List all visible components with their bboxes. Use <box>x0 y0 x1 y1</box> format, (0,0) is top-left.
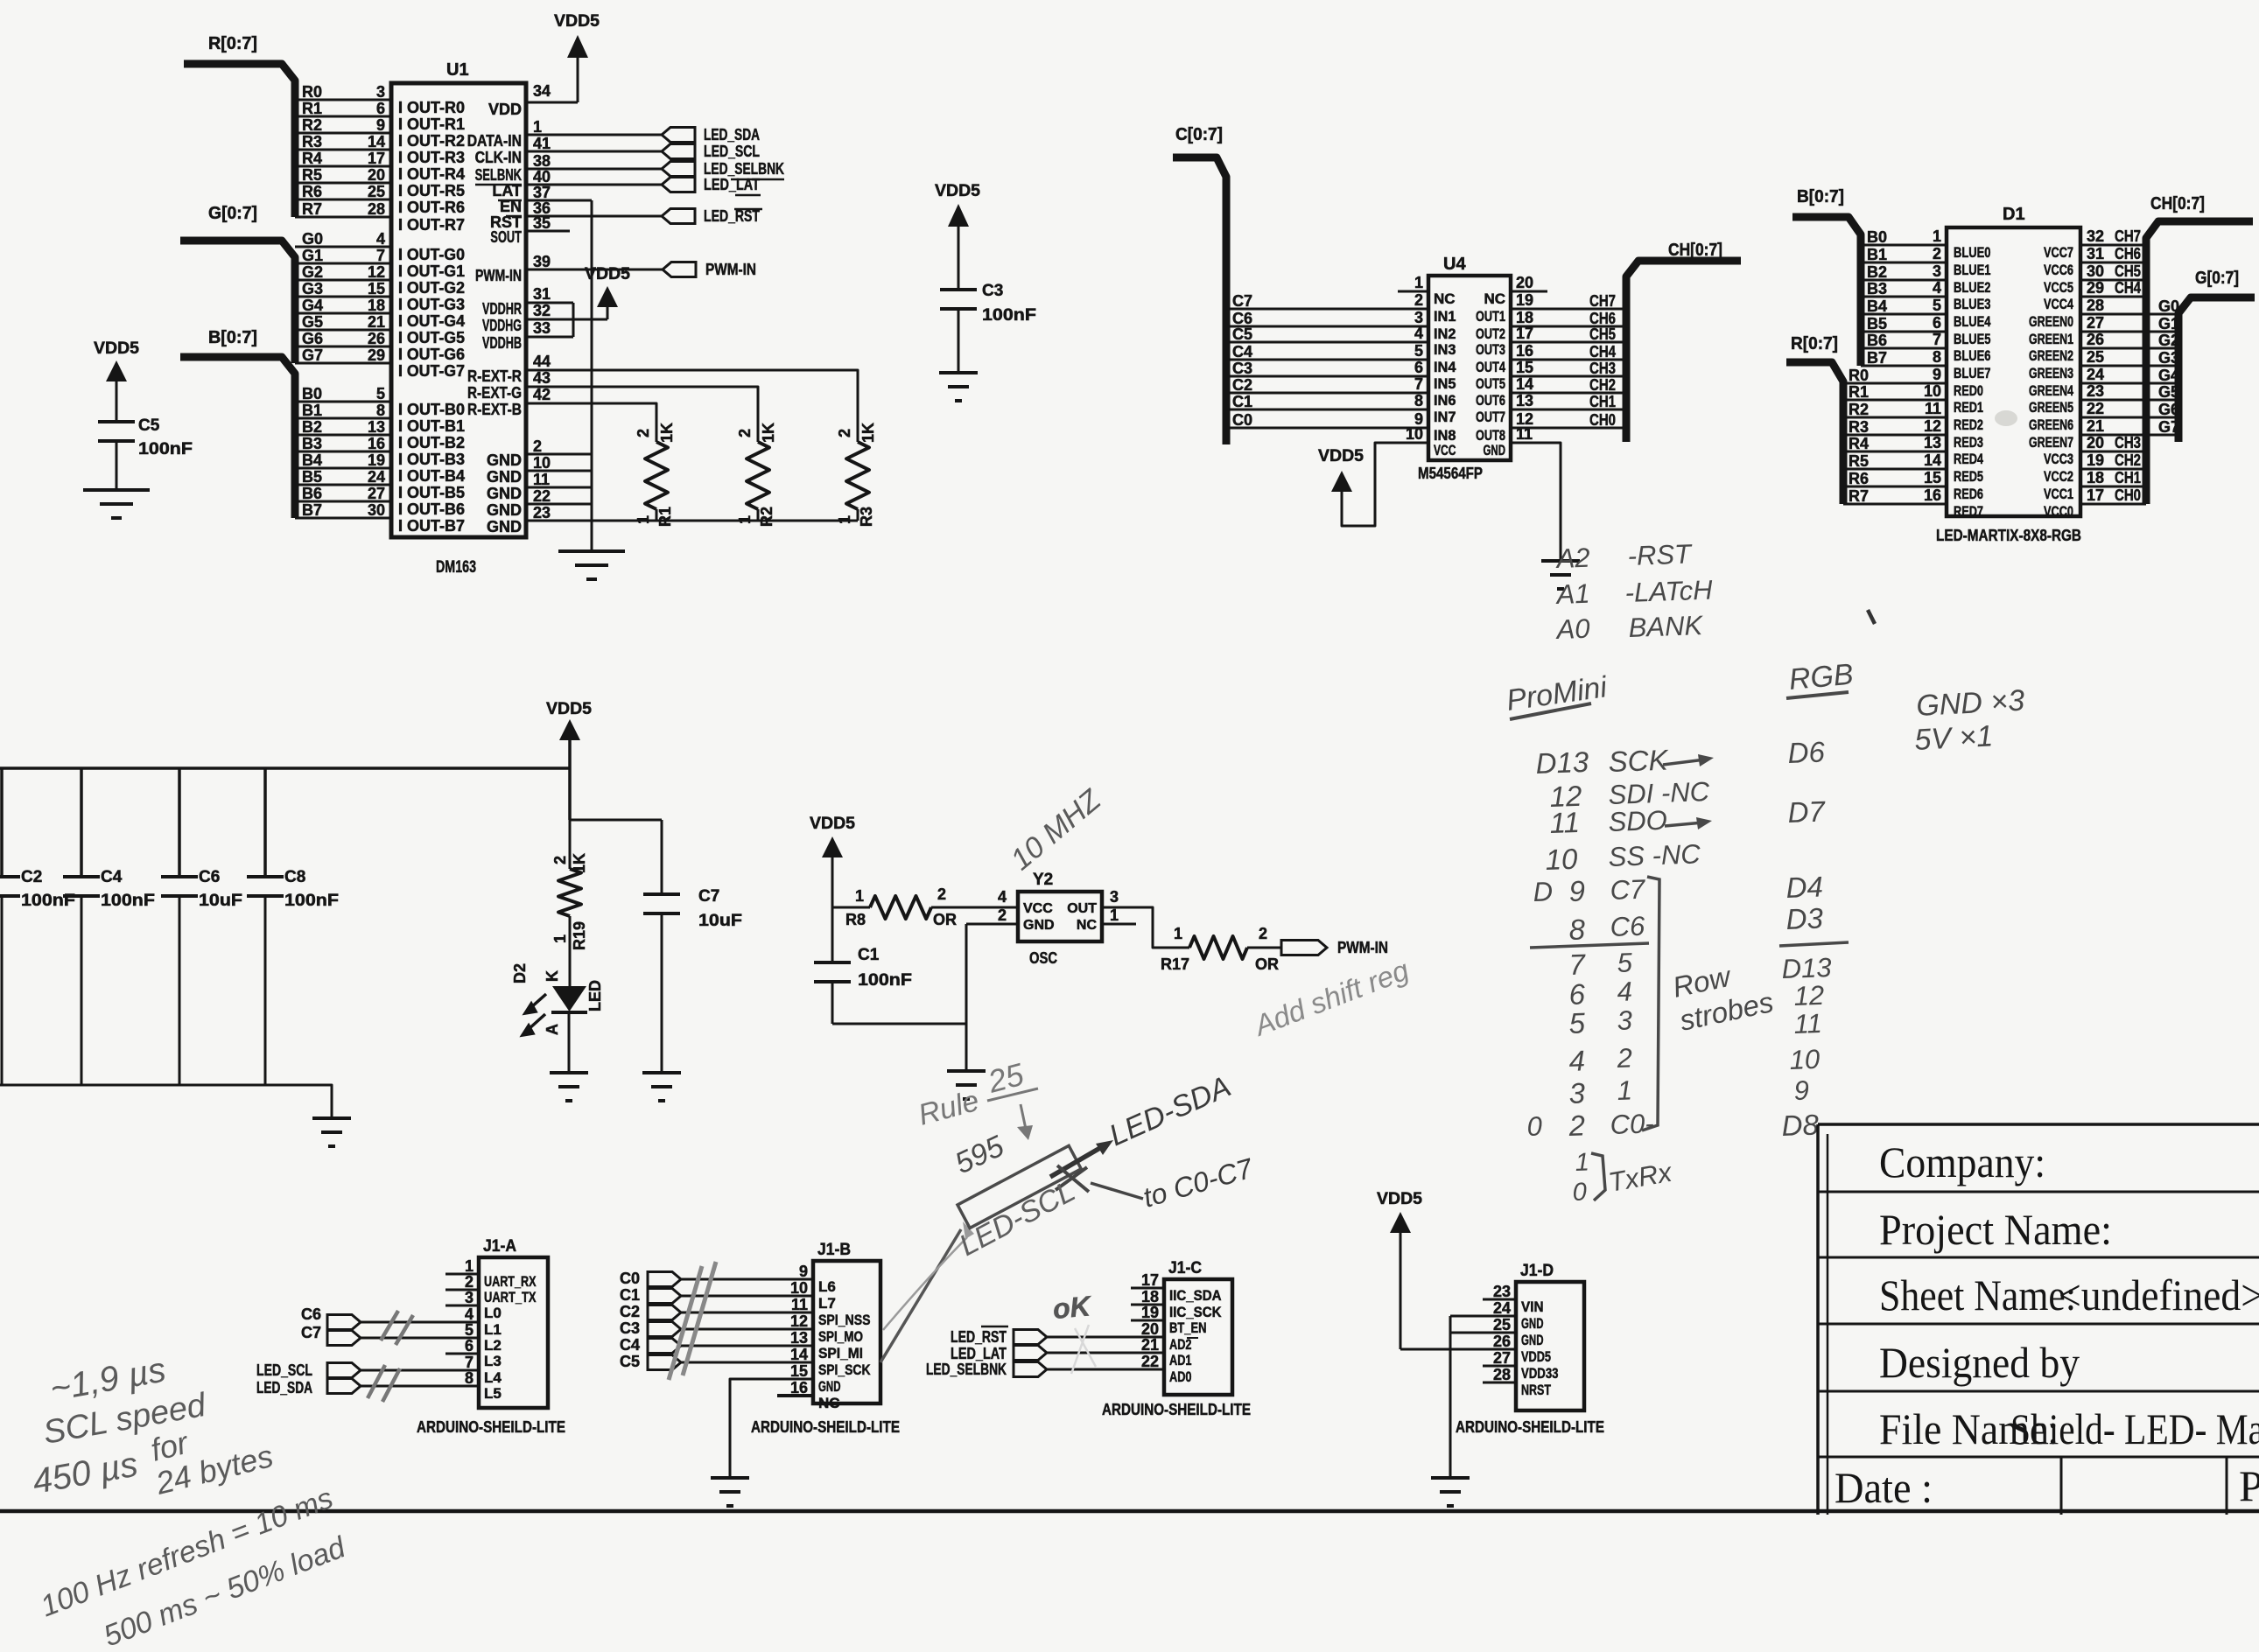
svg-text:24: 24 <box>1493 1299 1511 1317</box>
svg-text:17: 17 <box>1141 1271 1159 1289</box>
svg-text:11: 11 <box>1793 1008 1822 1039</box>
svg-text:8: 8 <box>1568 913 1586 946</box>
svg-text:PWM-IN: PWM-IN <box>1337 939 1388 956</box>
svg-text:C1: C1 <box>1232 393 1252 410</box>
wire SELBNK to LED_SELBNK flag <box>526 168 662 171</box>
svg-text:41: 41 <box>533 135 551 152</box>
svg-text:BLUE2: BLUE2 <box>1954 279 1991 296</box>
svg-text:24: 24 <box>368 468 385 486</box>
wire R-EXT-G to R2 <box>526 387 758 442</box>
svg-text:43: 43 <box>533 369 551 387</box>
svg-text:SPI_SCK: SPI_SCK <box>818 1361 871 1378</box>
resistor R3 1K <box>846 442 869 509</box>
svg-text:LED_SCL: LED_SCL <box>256 1361 312 1379</box>
svg-text:CH2: CH2 <box>2115 451 2141 469</box>
svg-text:15: 15 <box>1924 469 1941 486</box>
svg-text:OR: OR <box>1255 955 1279 973</box>
svg-text:G5: G5 <box>302 313 323 331</box>
svg-text:23: 23 <box>1493 1283 1511 1300</box>
svg-text:B7: B7 <box>302 501 322 519</box>
svg-text:VDD5: VDD5 <box>554 12 600 31</box>
svg-text:28: 28 <box>2087 297 2104 314</box>
svg-text:U1: U1 <box>446 60 469 80</box>
svg-text:9: 9 <box>376 116 385 134</box>
svg-text:RED7: RED7 <box>1954 503 1983 520</box>
svg-text:OUT: OUT <box>1067 901 1097 916</box>
svg-text:I OUT-B0: I OUT-B0 <box>398 401 465 418</box>
svg-text:44: 44 <box>533 353 551 370</box>
capacitor C6 10uF <box>178 768 181 877</box>
svg-text:15: 15 <box>1516 359 1533 376</box>
svg-text:C7: C7 <box>301 1324 321 1341</box>
svg-text:5: 5 <box>465 1321 474 1339</box>
svg-text:R8: R8 <box>845 911 866 928</box>
svg-text:100nF: 100nF <box>284 892 339 910</box>
active-low underlines for SELBNK LAT EN <box>475 184 522 186</box>
svg-text:D13: D13 <box>1781 952 1832 984</box>
svg-text:G3: G3 <box>2158 349 2179 367</box>
svg-text:I OUT-G0: I OUT-G0 <box>398 246 465 263</box>
svg-text:NC: NC <box>1434 290 1456 307</box>
svg-text:LED_RST: LED_RST <box>951 1328 1007 1346</box>
svg-text:7: 7 <box>1568 948 1587 981</box>
svg-text:C5: C5 <box>620 1353 640 1370</box>
svg-text:A0: A0 <box>1554 613 1590 645</box>
bus slash marks at J1-A <box>381 1311 398 1340</box>
svg-text:LED_SDA: LED_SDA <box>256 1379 312 1396</box>
svg-text:RED2: RED2 <box>1954 416 1983 433</box>
handwritten X and line to C0-C7 <box>1057 1165 1089 1192</box>
svg-text:25: 25 <box>368 183 385 200</box>
svg-text:I OUT-G7: I OUT-G7 <box>398 362 465 380</box>
svg-text:1: 1 <box>635 515 652 524</box>
svg-text:SPI_NSS: SPI_NSS <box>818 1312 871 1328</box>
wire CLK-IN to LED_SCL flag <box>526 150 662 153</box>
svg-text:VDD5: VDD5 <box>1318 447 1364 465</box>
svg-text:33: 33 <box>533 319 551 337</box>
svg-text:LED_LAT: LED_LAT <box>704 176 760 193</box>
svg-text:5: 5 <box>1568 1006 1586 1039</box>
J1-A unconnected stubs <box>445 1273 479 1276</box>
svg-text:C7: C7 <box>1232 292 1252 310</box>
svg-text:VDD5: VDD5 <box>1521 1348 1551 1365</box>
capacitor C7 10uF <box>661 820 663 894</box>
connector J1-B body <box>813 1261 880 1403</box>
svg-text:17: 17 <box>2087 486 2104 504</box>
svg-text:1: 1 <box>836 515 853 524</box>
svg-text:CH6: CH6 <box>2115 245 2141 262</box>
svg-text:1: 1 <box>551 934 569 943</box>
svg-text:21: 21 <box>1141 1336 1159 1354</box>
svg-text:11: 11 <box>1549 806 1581 839</box>
svg-text:D7: D7 <box>1787 794 1827 829</box>
svg-text:G0: G0 <box>2158 297 2179 315</box>
svg-text:NC: NC <box>818 1395 840 1411</box>
svg-text:15: 15 <box>790 1362 808 1380</box>
svg-text:13: 13 <box>790 1329 808 1347</box>
svg-text:32: 32 <box>2087 227 2104 245</box>
svg-text:R1: R1 <box>302 100 322 117</box>
svg-text:B5: B5 <box>1867 315 1887 332</box>
svg-text:oK: oK <box>1051 1290 1094 1325</box>
handwritten arrow to LED-SDA <box>1050 1145 1105 1177</box>
oscillator Y2 OSC body <box>1018 892 1102 941</box>
paper smudge on D1 <box>1995 410 2017 426</box>
svg-text:29: 29 <box>368 346 385 364</box>
svg-text:20: 20 <box>1141 1320 1159 1338</box>
svg-text:CH0: CH0 <box>1589 411 1616 429</box>
handwritten bracket row strobes <box>1642 877 1659 1130</box>
svg-text:LED_LAT: LED_LAT <box>951 1345 1007 1362</box>
svg-text:GND: GND <box>1484 442 1506 458</box>
svg-text:UART_RX: UART_RX <box>484 1273 537 1290</box>
svg-text:G4: G4 <box>302 297 323 314</box>
svg-text:9: 9 <box>1933 366 1941 383</box>
svg-text:VCC3: VCC3 <box>2044 451 2073 467</box>
svg-text:4: 4 <box>1568 1044 1586 1077</box>
svg-text:R1: R1 <box>1849 383 1869 401</box>
svg-text:C6: C6 <box>1610 911 1646 942</box>
svg-text:100nF: 100nF <box>982 306 1036 325</box>
svg-text:G3: G3 <box>302 280 323 297</box>
svg-text:B3: B3 <box>302 435 322 452</box>
svg-text:A: A <box>544 1024 561 1035</box>
svg-text:6: 6 <box>1568 977 1586 1011</box>
U1 green input wires G0-G7 <box>295 246 391 248</box>
svg-text:OSC: OSC <box>1029 949 1057 967</box>
D1 blue wires B0-B7 <box>1861 244 1947 247</box>
svg-text:C7: C7 <box>1610 874 1647 906</box>
svg-text:K: K <box>544 970 561 982</box>
svg-text:19: 19 <box>1141 1304 1159 1321</box>
svg-text:4: 4 <box>998 888 1007 906</box>
svg-text:C5: C5 <box>138 416 160 435</box>
svg-text:SOUT: SOUT <box>490 228 522 246</box>
svg-text:16: 16 <box>368 435 385 452</box>
svg-text:J1-B: J1-B <box>817 1241 851 1259</box>
svg-text:VDD5: VDD5 <box>810 815 855 833</box>
svg-text:IN7: IN7 <box>1434 409 1456 425</box>
svg-text:G1: G1 <box>302 247 323 264</box>
svg-text:1: 1 <box>1110 906 1119 924</box>
svg-text:14: 14 <box>790 1346 808 1363</box>
svg-text:OUT2: OUT2 <box>1476 325 1505 342</box>
AD2 overline mark <box>1187 1337 1198 1339</box>
svg-text:8: 8 <box>1933 348 1941 366</box>
net flag LED_SDA to J1-A pin8 <box>327 1379 361 1394</box>
svg-text:C2: C2 <box>1232 376 1252 394</box>
svg-text:Date :: Date : <box>1835 1463 1933 1512</box>
svg-text:VCC1: VCC1 <box>2044 486 2073 502</box>
svg-text:OUT1: OUT1 <box>1476 308 1505 325</box>
svg-text:VCC: VCC <box>1434 442 1456 458</box>
svg-text:M54564FP: M54564FP <box>1418 465 1483 482</box>
wire LAT to LED_LAT flag <box>526 184 662 186</box>
svg-text:Company:: Company: <box>1879 1137 2045 1186</box>
svg-text:B7: B7 <box>1867 349 1887 367</box>
bottom ground rail for caps <box>0 1085 332 1117</box>
svg-text:5V ×1: 5V ×1 <box>1913 719 1994 757</box>
svg-text:SS -NC: SS -NC <box>1608 838 1701 872</box>
svg-text:OUT7: OUT7 <box>1476 409 1505 425</box>
svg-text:4: 4 <box>1617 976 1632 1007</box>
svg-text:VDD33: VDD33 <box>1521 1365 1559 1382</box>
svg-text:R4: R4 <box>1849 435 1869 452</box>
svg-text:PWM-IN: PWM-IN <box>705 261 756 278</box>
svg-text:R[0:7]: R[0:7] <box>1791 334 1838 353</box>
U4 input wires C7-C0 <box>1226 308 1428 311</box>
svg-text:12: 12 <box>1793 980 1825 1011</box>
svg-text:B6: B6 <box>302 485 322 502</box>
svg-text:2: 2 <box>1568 1109 1586 1142</box>
svg-text:DM163: DM163 <box>436 558 476 577</box>
svg-text:R5: R5 <box>1849 452 1869 470</box>
net flags C0-C5 to J1-B <box>648 1272 681 1287</box>
svg-text:Designed by: Designed by <box>1879 1338 2080 1387</box>
stub SOUT pin 35 <box>526 230 570 233</box>
svg-text:11: 11 <box>1925 400 1941 417</box>
svg-text:GND: GND <box>818 1378 841 1395</box>
D1 green wires to G bus <box>2080 313 2178 316</box>
svg-text:14: 14 <box>1516 375 1533 393</box>
svg-text:NRST: NRST <box>1521 1382 1551 1398</box>
svg-text:CH5: CH5 <box>2115 262 2141 280</box>
svg-text:CLK-IN: CLK-IN <box>475 149 522 166</box>
svg-text:I OUT-B6: I OUT-B6 <box>398 500 465 518</box>
svg-text:22: 22 <box>2087 400 2104 417</box>
svg-text:9: 9 <box>1568 874 1586 907</box>
svg-text:2: 2 <box>998 906 1007 924</box>
svg-text:BANK: BANK <box>1628 610 1704 643</box>
svg-text:GND: GND <box>1023 918 1055 933</box>
connector J1-A body <box>479 1257 548 1408</box>
svg-text:GREEN5: GREEN5 <box>2029 399 2073 416</box>
net flag LED_SELBNK to J1-C pin22 <box>1014 1362 1047 1377</box>
svg-text:D1: D1 <box>2003 205 2025 224</box>
svg-text:C2: C2 <box>21 868 42 886</box>
net flag LED_LAT to J1-C pin21 <box>1014 1346 1047 1361</box>
svg-text:R2: R2 <box>1849 401 1869 418</box>
svg-text:GND: GND <box>487 468 522 486</box>
ground below oscillator <box>947 1069 986 1073</box>
svg-text:R3: R3 <box>302 133 322 150</box>
svg-text:2: 2 <box>736 429 754 437</box>
net flag LED_SELBNK <box>662 162 695 177</box>
svg-text:20: 20 <box>2087 434 2104 451</box>
svg-text:2: 2 <box>1259 925 1267 942</box>
svg-text:14: 14 <box>368 133 385 150</box>
svg-text:C4: C4 <box>101 868 123 886</box>
svg-text:7: 7 <box>465 1354 474 1371</box>
svg-text:34: 34 <box>533 82 551 100</box>
svg-text:5: 5 <box>376 385 385 402</box>
svg-text:C0: C0 <box>1232 411 1252 429</box>
svg-text:13: 13 <box>1516 392 1533 409</box>
OSC NC stub <box>1102 923 1136 926</box>
svg-text:3: 3 <box>465 1289 474 1306</box>
svg-text:3: 3 <box>1617 1004 1632 1036</box>
svg-text:G7: G7 <box>2158 418 2179 436</box>
svg-text:G6: G6 <box>302 330 323 347</box>
svg-text:Sheet Name:: Sheet Name: <box>1879 1270 2076 1319</box>
svg-text:9: 9 <box>1793 1074 1809 1106</box>
svg-text:R-EXT-G: R-EXT-G <box>467 384 522 402</box>
svg-text:2: 2 <box>635 429 652 437</box>
svg-text:100nF: 100nF <box>858 971 912 990</box>
svg-text:ARDUINO-SHEILD-LITE: ARDUINO-SHEILD-LITE <box>1102 1401 1251 1418</box>
svg-text:10uF: 10uF <box>698 912 742 930</box>
svg-text:8: 8 <box>376 402 385 419</box>
svg-text:18: 18 <box>1516 309 1533 326</box>
svg-text:31: 31 <box>533 285 551 303</box>
svg-text:19: 19 <box>2087 451 2104 469</box>
svg-text:CH4: CH4 <box>1589 343 1616 360</box>
net flag C7 to J1-A pin5 <box>327 1331 361 1346</box>
svg-text:J1-C: J1-C <box>1168 1259 1202 1277</box>
net flag PWM-IN output <box>1281 941 1327 955</box>
svg-text:G0: G0 <box>302 230 323 248</box>
svg-text:CH7: CH7 <box>2115 227 2141 245</box>
svg-text:6: 6 <box>465 1337 474 1354</box>
svg-text:D: D <box>1533 876 1554 907</box>
svg-text:A1: A1 <box>1554 578 1590 610</box>
svg-text:I OUT-G3: I OUT-G3 <box>398 296 465 313</box>
svg-text:5: 5 <box>1414 342 1423 360</box>
svg-text:G6: G6 <box>2158 401 2179 418</box>
svg-text:B2: B2 <box>1867 263 1887 281</box>
U4 NC stubs <box>1398 290 1428 293</box>
svg-text:BLUE4: BLUE4 <box>1954 313 1991 330</box>
svg-text:GND: GND <box>487 485 522 502</box>
svg-text:AD1: AD1 <box>1169 1352 1192 1368</box>
U4 output wires CH7-CH0 <box>1511 308 1626 311</box>
svg-text:IN1: IN1 <box>1434 308 1456 325</box>
svg-text:VCC7: VCC7 <box>2044 244 2073 261</box>
svg-text:R0: R0 <box>1849 367 1869 384</box>
svg-text:RED5: RED5 <box>1954 468 1983 485</box>
net flag LED_LAT <box>662 178 695 192</box>
svg-text:6: 6 <box>376 100 385 117</box>
svg-text:RED0: RED0 <box>1954 382 1983 399</box>
svg-text:18: 18 <box>2087 469 2104 486</box>
svg-text:19: 19 <box>1516 291 1533 309</box>
svg-text:IN2: IN2 <box>1434 325 1456 342</box>
svg-text:I OUT-R6: I OUT-R6 <box>398 199 465 216</box>
svg-text:AD0: AD0 <box>1169 1368 1192 1385</box>
net flag C6 to J1-A pin4 <box>327 1315 361 1330</box>
svg-text:CH1: CH1 <box>2115 469 2141 486</box>
svg-text:I OUT-B2: I OUT-B2 <box>398 434 465 451</box>
svg-text:L0: L0 <box>484 1305 502 1321</box>
svg-text:B6: B6 <box>1867 332 1887 349</box>
svg-text:16: 16 <box>1516 342 1533 360</box>
svg-text:I OUT-R1: I OUT-R1 <box>398 115 465 133</box>
svg-text:G7: G7 <box>302 346 323 364</box>
svg-text:BT_EN: BT_EN <box>1169 1319 1207 1336</box>
svg-text:CH7: CH7 <box>1589 292 1616 310</box>
svg-text:CH3: CH3 <box>2115 434 2141 451</box>
svg-text:9: 9 <box>799 1263 808 1280</box>
svg-text:23: 23 <box>533 504 551 521</box>
svg-text:SPI_MI: SPI_MI <box>818 1345 863 1361</box>
net flag LED_SDA <box>662 128 695 143</box>
svg-text:1: 1 <box>1414 274 1423 291</box>
svg-text:B1: B1 <box>302 402 322 419</box>
svg-text:CH4: CH4 <box>2115 279 2141 297</box>
svg-text:I OUT-R2: I OUT-R2 <box>398 132 465 150</box>
svg-text:G5: G5 <box>2158 383 2179 401</box>
svg-text:CH2: CH2 <box>1589 376 1616 394</box>
svg-text:B4: B4 <box>302 451 322 469</box>
svg-text:R-EXT-B: R-EXT-B <box>467 401 522 418</box>
U4 GND wire and ground <box>1511 443 1561 560</box>
svg-text:13: 13 <box>1924 434 1941 451</box>
svg-text:-LATcH: -LATcH <box>1624 575 1714 608</box>
ground below C7 <box>642 1071 681 1074</box>
svg-text:27: 27 <box>1493 1349 1511 1367</box>
hand-drawn 595 shift register box <box>958 1145 1081 1228</box>
svg-text:RGB: RGB <box>1787 658 1855 696</box>
svg-text:IIC_SDA: IIC_SDA <box>1169 1287 1222 1304</box>
svg-text:GREEN7: GREEN7 <box>2029 434 2073 451</box>
svg-text:C6: C6 <box>1232 310 1252 327</box>
svg-text:OUT3: OUT3 <box>1476 341 1505 358</box>
svg-text:C6: C6 <box>199 868 220 886</box>
svg-text:IN3: IN3 <box>1434 341 1456 358</box>
svg-text:D3: D3 <box>1785 902 1824 935</box>
svg-text:1K: 1K <box>658 423 676 443</box>
svg-text:19: 19 <box>368 451 385 469</box>
svg-text:23: 23 <box>2087 382 2104 400</box>
resistor R2 1K <box>747 442 769 509</box>
svg-text:3: 3 <box>1414 309 1423 326</box>
svg-text:SDO: SDO <box>1608 805 1667 837</box>
svg-text:Shield- LED- Ma: Shield- LED- Ma <box>2010 1404 2259 1453</box>
bus slash marks at J1-B <box>683 1262 716 1375</box>
svg-text:CH6: CH6 <box>1589 310 1616 327</box>
U1 red input wires R0-R7 <box>295 99 391 101</box>
svg-text:I OUT-R0: I OUT-R0 <box>398 99 465 116</box>
svg-text:L1: L1 <box>484 1321 502 1338</box>
svg-text:I OUT-R4: I OUT-R4 <box>398 165 465 183</box>
svg-text:1: 1 <box>465 1257 474 1275</box>
svg-text:I OUT-B7: I OUT-B7 <box>398 517 465 535</box>
svg-text:GREEN1: GREEN1 <box>2029 331 2073 347</box>
net flag LED_RST to J1-C pin20 <box>1014 1330 1047 1345</box>
svg-text:1: 1 <box>1617 1074 1632 1106</box>
OSC OUT wire to R17 <box>1102 907 1189 948</box>
svg-text:11: 11 <box>791 1296 808 1313</box>
svg-text:C6: C6 <box>301 1305 321 1323</box>
svg-text:D2: D2 <box>511 963 529 983</box>
svg-text:B5: B5 <box>302 468 322 486</box>
svg-text:RED3: RED3 <box>1954 434 1983 451</box>
svg-text:GREEN6: GREEN6 <box>2029 416 2073 433</box>
pen tick mark <box>1868 610 1875 624</box>
svg-text:B0: B0 <box>302 385 322 402</box>
svg-text:C4: C4 <box>1232 343 1252 360</box>
svg-text:PWM-IN: PWM-IN <box>475 267 522 284</box>
J1-B NC stub <box>777 1394 813 1397</box>
svg-text:C2: C2 <box>620 1303 640 1320</box>
svg-text:-RST: -RST <box>1627 538 1694 571</box>
svg-text:LED_SELBNK: LED_SELBNK <box>926 1361 1007 1378</box>
svg-text:GND ×3: GND ×3 <box>1915 684 2025 723</box>
svg-text:BLUE7: BLUE7 <box>1954 365 1991 381</box>
J1-D stubs pins 23 27 28 <box>1483 1298 1516 1301</box>
ground below cap rail <box>312 1116 351 1120</box>
svg-text:30: 30 <box>2087 262 2104 280</box>
